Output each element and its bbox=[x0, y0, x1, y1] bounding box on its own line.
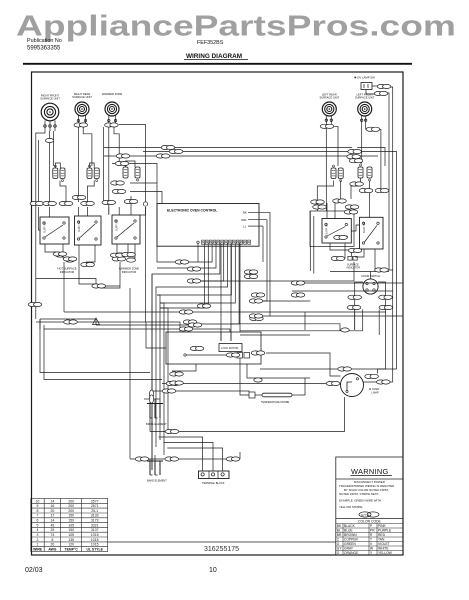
G/Y splice example symbol bbox=[359, 512, 379, 517]
svg-text:3133: 3133 bbox=[91, 514, 99, 518]
svg-text:3: 3 bbox=[37, 533, 39, 537]
svg-text:10: 10 bbox=[36, 499, 40, 503]
svg-text:1015: 1015 bbox=[91, 538, 99, 542]
door lock assembly enclosure bbox=[166, 332, 261, 364]
svg-text:Publication No: Publication No bbox=[27, 38, 62, 44]
wire box1 feed b bbox=[49, 207, 51, 217]
wire coil1 left terminal to left trunk bbox=[36, 131, 45, 319]
splice door leg L2 bbox=[347, 305, 361, 309]
splice coil3 lead bbox=[105, 123, 119, 127]
splice bus end 3 bbox=[349, 159, 363, 163]
wire lamp left wire bbox=[162, 383, 341, 385]
wire indicator lamp drop bbox=[63, 262, 65, 312]
surface switch 5 (left front) bbox=[360, 217, 384, 249]
wire trunk x152 ext bbox=[151, 274, 153, 470]
wire right riser a bbox=[309, 211, 311, 271]
svg-text:PR: PR bbox=[370, 529, 375, 533]
svg-text:3321: 3321 bbox=[91, 523, 99, 527]
splice lamp top bbox=[338, 367, 352, 371]
warning box bbox=[336, 457, 403, 555]
wire bus L1 top bbox=[104, 148, 385, 167]
wire right riser b bbox=[313, 216, 315, 274]
svg-text:TERMINAL BLOCK: TERMINAL BLOCK bbox=[202, 481, 225, 485]
svg-text:TEMPERATURE PROBE: TEMPERATURE PROBE bbox=[261, 401, 289, 404]
svg-text:17: 17 bbox=[51, 514, 55, 518]
svg-text:135: 135 bbox=[68, 538, 74, 542]
wire lamp right wire bbox=[363, 381, 393, 383]
svg-text:BR: BR bbox=[337, 533, 342, 537]
wire box3 drop a bbox=[116, 244, 118, 253]
heater pair D (left rear switch) bbox=[331, 165, 343, 182]
svg-text:PURPLE: PURPLE bbox=[378, 529, 392, 533]
wire gauge table bbox=[31, 499, 108, 552]
wire coil2 right terminal jog bbox=[83, 128, 92, 167]
splice bake row 3 bbox=[226, 457, 240, 461]
svg-text:LAMP: LAMP bbox=[372, 391, 379, 395]
coil terminals warmer zone bbox=[108, 116, 117, 124]
splice junction sq bbox=[143, 202, 147, 206]
splice mid 318 bbox=[250, 316, 264, 320]
wire broil row bbox=[144, 398, 160, 400]
svg-text:O: O bbox=[337, 551, 340, 555]
wire cluster C top jumper bbox=[126, 161, 136, 167]
wire splice riser x103 bbox=[102, 127, 104, 202]
wire lock feed riser 3 bbox=[239, 244, 241, 331]
svg-text:INDICATOR: INDICATOR bbox=[122, 270, 137, 274]
wire coil5 splice out bbox=[379, 129, 381, 190]
splice clusterC out1 bbox=[111, 181, 125, 185]
wire ovlampsw wire down bbox=[366, 90, 377, 95]
svg-text:200: 200 bbox=[68, 499, 74, 503]
splice clusterD top2 bbox=[313, 205, 327, 209]
splice bus end 2 bbox=[347, 155, 361, 159]
splice mid 301 bbox=[249, 299, 263, 303]
wire EOC ORL wire bbox=[250, 220, 267, 301]
wire terminal drop right bbox=[239, 452, 241, 459]
splice door leg R1 bbox=[379, 295, 393, 299]
wire lamp top wire bbox=[260, 368, 397, 370]
wire cluster E bottom drop bbox=[351, 178, 361, 199]
wire coil3 right terminal jog bbox=[114, 128, 119, 166]
wire right box4 top feeds bbox=[326, 203, 328, 219]
splice cluster DE low3 bbox=[375, 189, 389, 193]
svg-text:9: 9 bbox=[37, 504, 39, 508]
wire bus mid 283 bbox=[292, 282, 403, 284]
svg-text:74: 74 bbox=[51, 533, 55, 537]
wire box2 drop2 bbox=[79, 245, 95, 284]
svg-text:AppliancePartsPros.com: AppliancePartsPros.com bbox=[16, 11, 456, 43]
wire box5 drop2 bbox=[375, 249, 393, 270]
svg-text:8: 8 bbox=[51, 538, 53, 542]
svg-text:✺ OVEN: ✺ OVEN bbox=[369, 387, 379, 391]
splice mid 306 bbox=[197, 304, 211, 308]
wire EOC left risers bbox=[197, 243, 199, 262]
EOC terminal BK bbox=[243, 211, 270, 215]
svg-text:EXAMPLE: GREEN WIRE WITH: EXAMPLE: GREEN WIRE WITH bbox=[339, 499, 381, 503]
splice coil4 lead bbox=[320, 124, 334, 128]
wire bus L2 top bbox=[143, 152, 397, 370]
splice bus end 1 bbox=[348, 150, 362, 154]
wire bottom h 442 bbox=[164, 443, 214, 472]
svg-text:14: 14 bbox=[51, 499, 55, 503]
wire box4 drop2 bbox=[338, 243, 345, 258]
svg-text:BAKE ELEMENT: BAKE ELEMENT bbox=[147, 479, 167, 483]
splice probe chain bbox=[162, 389, 176, 393]
svg-text:2: 2 bbox=[37, 538, 39, 542]
svg-text:ORL: ORL bbox=[241, 218, 247, 222]
wire door sw top stub bbox=[370, 272, 372, 279]
splice bus d bbox=[115, 161, 129, 165]
oven lamp switch bbox=[354, 76, 375, 90]
electronic oven control board bbox=[157, 204, 270, 247]
wire EOC pin wire 5 bbox=[157, 243, 220, 274]
splice bake row 2 bbox=[165, 457, 179, 461]
splice ovlamp sw a bbox=[377, 84, 391, 88]
wire lock box bottom drop bbox=[239, 358, 241, 364]
svg-text:1015: 1015 bbox=[91, 533, 99, 537]
splice cluster right a bbox=[344, 210, 358, 214]
svg-text:3107: 3107 bbox=[91, 528, 99, 532]
terminal block bbox=[199, 471, 230, 485]
svg-text:NOTED FIRST, STRIPE NEXT.: NOTED FIRST, STRIPE NEXT. bbox=[339, 492, 379, 496]
wire EOC pin wire 9 bbox=[160, 243, 235, 303]
wire broil leads bbox=[149, 399, 151, 404]
wire EOC L1 wire bbox=[262, 226, 264, 262]
wire lock feed riser 1 bbox=[220, 244, 222, 342]
wire bottom h 437 bbox=[159, 437, 203, 471]
svg-text:WARMER ZONE: WARMER ZONE bbox=[119, 267, 140, 271]
svg-text:7: 7 bbox=[37, 514, 39, 518]
wire door sw left leg lower bbox=[354, 308, 356, 330]
wire cluster E drop2 bbox=[369, 181, 371, 217]
surface switch 4 (left rear) bbox=[322, 219, 351, 244]
splice surfind bbox=[331, 256, 345, 260]
svg-text:YELLOW STRIPE.: YELLOW STRIPE. bbox=[339, 505, 363, 509]
svg-text:14: 14 bbox=[51, 519, 55, 523]
svg-text:3173: 3173 bbox=[91, 519, 99, 523]
splice lamp right2 bbox=[377, 380, 391, 384]
wire lock motor top feeds bbox=[220, 332, 222, 341]
svg-text:RED: RED bbox=[378, 533, 386, 537]
heater pair A (right front switch) bbox=[53, 165, 65, 182]
wire broil drop bbox=[149, 418, 151, 432]
wire coil1 right terminal down to cluster A bbox=[53, 131, 55, 166]
wire EOC pin wire 4 bbox=[188, 243, 216, 268]
wire coil5 left trunk bbox=[361, 123, 362, 163]
svg-text:150: 150 bbox=[68, 519, 74, 523]
svg-text:TEMP°C: TEMP°C bbox=[65, 548, 79, 552]
wire box2 feed a bbox=[77, 207, 79, 216]
svg-text:GREEN: GREEN bbox=[344, 542, 356, 546]
splice door leg L1 bbox=[348, 295, 362, 299]
broil element bbox=[146, 404, 167, 426]
splice mid 283 bbox=[291, 281, 305, 285]
wire junction square riser bbox=[140, 207, 146, 215]
svg-text:DOOR SWITCH: DOOR SWITCH bbox=[362, 274, 381, 278]
wire bus mid 274 bbox=[152, 274, 157, 470]
wire box3 drop b bbox=[127, 244, 129, 253]
publication number bbox=[27, 38, 62, 52]
svg-text:25-1: 25-1 bbox=[91, 509, 98, 513]
splice splice row 2 bbox=[43, 201, 57, 205]
svg-text:6: 6 bbox=[37, 519, 39, 523]
svg-text:5995363355: 5995363355 bbox=[27, 46, 61, 52]
svg-text:UL STYLE: UL STYLE bbox=[87, 548, 104, 552]
wire lock feed riser 2 bbox=[230, 244, 232, 342]
wire cluster A top jumper bbox=[55, 163, 60, 168]
splice mid 329 bbox=[179, 327, 193, 331]
splice left trunk pair bbox=[28, 302, 42, 306]
wire ovlampsw wire right bbox=[372, 85, 380, 87]
wire EOC pin wire 6 bbox=[188, 243, 224, 281]
svg-text:2571: 2571 bbox=[91, 504, 99, 508]
surface unit coil: right rear surface unit bbox=[72, 92, 92, 116]
wire bus mid 316 bbox=[250, 315, 403, 317]
splice lamp left bbox=[326, 381, 340, 385]
splice cluster DE low2 bbox=[359, 189, 373, 193]
svg-text:COPPER: COPPER bbox=[344, 538, 359, 542]
splice bus a bbox=[161, 145, 175, 149]
splice splice row 1 bbox=[30, 201, 44, 205]
wire indicator lamp drop2 bbox=[100, 262, 120, 288]
wire bake drop bbox=[149, 459, 151, 461]
coil terminals left front unit bbox=[361, 116, 367, 124]
coil terminals right front unit bbox=[44, 121, 57, 132]
page border bbox=[32, 72, 404, 555]
svg-text:ELECTRONIC OVEN CONTROL: ELECTRONIC OVEN CONTROL bbox=[167, 209, 217, 213]
svg-text:SURFACE UNIT: SURFACE UNIT bbox=[40, 97, 60, 101]
door switch left leg bbox=[355, 282, 363, 330]
bake element bbox=[147, 461, 167, 483]
splice splice row 6 bbox=[124, 199, 138, 203]
svg-text:10: 10 bbox=[209, 567, 217, 574]
svg-text:VIOLET: VIOLET bbox=[378, 542, 390, 546]
svg-text:PINK: PINK bbox=[378, 524, 386, 528]
svg-text:20: 20 bbox=[51, 509, 55, 513]
splice mid434 bbox=[165, 429, 179, 433]
wire ov lamp sw splice2 to trunk bbox=[385, 93, 389, 270]
wire bus 330.8 bbox=[240, 330, 363, 332]
splice mid 291 bbox=[291, 293, 305, 297]
splice door leg R2 bbox=[379, 305, 393, 309]
wire lock enclosure bottom wires bbox=[172, 364, 196, 371]
splice mid 268 bbox=[187, 267, 201, 271]
splice splice row 4 bbox=[81, 201, 95, 205]
wire probe left wire bbox=[240, 364, 249, 395]
wire cluster C right link 1 bbox=[130, 182, 157, 184]
wire right box45 link bbox=[351, 225, 359, 231]
svg-text:WARNING: WARNING bbox=[351, 467, 389, 476]
hot surface indicator lamp bbox=[56, 253, 75, 262]
wire EOC pin wire 7 bbox=[160, 243, 228, 287]
svg-text:WIRING DIAGRAM: WIRING DIAGRAM bbox=[186, 53, 242, 60]
splice bus b bbox=[169, 149, 183, 153]
splice ind5 bbox=[112, 257, 126, 261]
splice ind1 bbox=[53, 252, 67, 256]
splice ind3 bbox=[110, 253, 124, 257]
splice cluster DE low bbox=[350, 182, 364, 186]
splice box45 low bbox=[348, 248, 362, 252]
color code table bbox=[336, 518, 403, 520]
svg-text:SURF SW: SURF SW bbox=[326, 222, 329, 234]
svg-text:105: 105 bbox=[68, 533, 74, 537]
wire bus 323.8 bbox=[230, 324, 340, 331]
svg-text:TAN: TAN bbox=[378, 538, 385, 542]
surface unit coil: warmer zone element bbox=[102, 92, 123, 116]
splice bake row 1 bbox=[135, 457, 149, 461]
wire probe left chain bbox=[150, 391, 249, 392]
svg-text:AWG: AWG bbox=[48, 548, 56, 552]
wire bus mid 319 bbox=[40, 318, 96, 320]
svg-text:150: 150 bbox=[68, 528, 74, 532]
warmer zone switch bbox=[112, 215, 140, 274]
svg-text:WIRE: WIRE bbox=[33, 548, 43, 552]
oven temperature probe bbox=[249, 392, 300, 404]
wire left low trunk a bbox=[40, 319, 150, 373]
wire door sw right leg lower bbox=[378, 308, 386, 374]
splice mid 276 bbox=[244, 274, 258, 278]
wire broil lead b bbox=[154, 399, 156, 404]
wire bus N top bbox=[104, 155, 378, 157]
splice doorsw splice bbox=[341, 328, 349, 332]
wire left trunk 2 bbox=[38, 140, 40, 203]
splice lock bottom1 bbox=[170, 372, 184, 376]
svg-text:SURF SW: SURF SW bbox=[116, 219, 119, 231]
splice lamp left far bbox=[166, 381, 180, 385]
splice pair x79 bbox=[72, 195, 86, 199]
wire EOC pin wire 3 bbox=[177, 243, 212, 262]
splice ovlamp sw b bbox=[374, 91, 388, 95]
svg-text:105: 105 bbox=[68, 523, 74, 527]
lock motor bbox=[219, 344, 242, 352]
wire bus mid 322 bbox=[36, 322, 180, 332]
svg-text:SURFACE UNIT: SURFACE UNIT bbox=[72, 95, 92, 99]
title WIRING DIAGRAM bbox=[184, 53, 248, 60]
wire right box4 top feeds2 bbox=[334, 201, 336, 219]
EOC terminal ORL bbox=[241, 218, 267, 222]
wire lock enclosure bottom 2 bbox=[247, 364, 310, 378]
splice clusterD top bbox=[311, 200, 325, 204]
splice mid 272 bbox=[244, 270, 258, 274]
wire bus mid 268 bbox=[157, 267, 188, 269]
heater pair E (left front switch) bbox=[358, 164, 372, 181]
svg-text:LOCK MOTOR: LOCK MOTOR bbox=[221, 346, 239, 350]
wire bus mid 301 bbox=[250, 300, 310, 302]
svg-text:SURF SW: SURF SW bbox=[78, 220, 81, 232]
wire ov lamp sw splice to trunk bbox=[388, 87, 393, 382]
splice clusterC out2 bbox=[112, 189, 126, 193]
wire bake left riser bbox=[129, 288, 131, 459]
splice mid 312 bbox=[179, 310, 193, 314]
splice cluster right b bbox=[345, 205, 359, 209]
wire coil2 left terminal down bbox=[77, 128, 79, 203]
svg-text:INDICATOR: INDICATOR bbox=[60, 270, 75, 274]
surface switch 1 (right front) bbox=[40, 217, 69, 244]
wire lock left wire bbox=[146, 322, 166, 348]
svg-text:HOT SURFACE: HOT SURFACE bbox=[57, 267, 76, 271]
svg-text:BLACK: BLACK bbox=[344, 524, 356, 528]
svg-text:316255175: 316255175 bbox=[204, 546, 239, 553]
surface unit coil: left rear surface unit bbox=[319, 93, 339, 117]
svg-text:BLUE: BLUE bbox=[344, 529, 353, 533]
wire EOC BK wire bbox=[269, 212, 271, 316]
svg-text:SURF SW: SURF SW bbox=[44, 221, 47, 233]
outer enclosure left rear switch bbox=[310, 211, 354, 247]
EOC terminal L1 bbox=[243, 224, 263, 228]
surface switch 2 (right rear) bbox=[57, 216, 101, 274]
splice ind2 bbox=[63, 257, 77, 261]
splice splice row 5 bbox=[102, 200, 116, 204]
wire bus mid 312 bbox=[66, 312, 305, 330]
wire coil3 splice to right riser bbox=[119, 125, 146, 203]
svg-text:02/03: 02/03 bbox=[25, 567, 43, 574]
wire bus mid 287 bbox=[156, 287, 160, 447]
oven door switch bbox=[362, 274, 381, 294]
splice lock chain bbox=[251, 351, 265, 355]
wire coil4 right jog bbox=[330, 123, 332, 126]
svg-text:16: 16 bbox=[51, 504, 55, 508]
wire left low trunk b bbox=[44, 325, 162, 380]
svg-text:200: 200 bbox=[68, 509, 74, 513]
wire EOC pin wire 10 bbox=[186, 243, 239, 324]
svg-text:SURFACE UNIT: SURFACE UNIT bbox=[319, 96, 339, 100]
wire box2 drop bbox=[86, 245, 95, 262]
svg-text:4: 4 bbox=[37, 528, 39, 532]
wire bus 312 right ext bbox=[305, 311, 386, 313]
svg-text:150: 150 bbox=[68, 514, 74, 518]
wire junction Y bbox=[93, 318, 100, 325]
svg-text:200: 200 bbox=[68, 504, 74, 508]
wire EOC pin wire 8 bbox=[157, 243, 231, 295]
splice lock right bbox=[226, 353, 240, 357]
wire box3 drop c bbox=[128, 244, 135, 258]
wire bake row bbox=[130, 458, 240, 460]
coil terminals left rear unit bbox=[325, 116, 332, 124]
wire box1 drop b bbox=[63, 244, 70, 258]
wire coil4 left trunk bbox=[325, 123, 327, 211]
svg-text:COLOR CODE: COLOR CODE bbox=[358, 520, 382, 524]
splice coil2 lead bbox=[74, 123, 88, 127]
wire Y junction drop bbox=[95, 319, 97, 325]
wire cluster D bottom drop bbox=[340, 181, 342, 200]
EOC connector pin row bbox=[197, 240, 251, 244]
wire door leg extra L bbox=[362, 310, 364, 331]
wire EOC pin wire 2 bbox=[160, 243, 208, 308]
splice mid 316 bbox=[249, 314, 263, 318]
splice mid 322 bbox=[183, 320, 197, 324]
splice mid 281 bbox=[187, 279, 201, 283]
splice left bus pair bbox=[92, 284, 106, 288]
wire bus mid 329 bbox=[44, 329, 230, 332]
svg-text:L1: L1 bbox=[243, 224, 247, 228]
wire left drop y319 bbox=[39, 319, 41, 329]
splice mid 262 bbox=[175, 260, 189, 264]
splice lamp right bbox=[365, 374, 379, 378]
wire cluster B top jumper bbox=[90, 163, 95, 168]
wire box feed x131 bbox=[130, 196, 132, 215]
wire coil5 right jog bbox=[366, 123, 368, 129]
bottom title bar line bbox=[108, 541, 336, 543]
splice broil splice bbox=[149, 390, 153, 403]
wire bus mid 303 bbox=[160, 303, 164, 455]
wire surface ind drop bbox=[351, 252, 353, 256]
heater pair C (warmer zone switch) bbox=[123, 164, 140, 181]
wire bus mid 295 bbox=[157, 295, 160, 440]
svg-text:WARMER ZONE: WARMER ZONE bbox=[102, 92, 123, 96]
svg-text:GY: GY bbox=[337, 547, 343, 551]
splice bus left 3 bbox=[156, 154, 170, 158]
svg-text:YELLOW: YELLOW bbox=[378, 551, 393, 555]
